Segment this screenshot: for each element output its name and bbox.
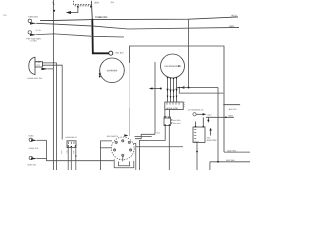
svg-text:BLK WHT: BLK WHT [173,122,181,125]
svg-text:BLK YEL: BLK YEL [229,108,238,111]
horn relay [60,136,78,170]
resistor output wire down [196,142,198,170]
alternator field wire (left, down to ignition switch) [149,62,162,134]
svg-text:BLK YEL: BLK YEL [228,149,238,152]
svg-text:BLK RED: BLK RED [173,119,181,122]
svg-text:ALT WARNING LP: ALT WARNING LP [188,109,204,112]
alternator terminal wires down to regulator [168,78,177,102]
svg-text:STARTER: STARTER [107,69,118,72]
svg-text:20A: 20A [94,1,99,4]
headlight switch wires [42,63,62,170]
accessory feed wire (right, down) [217,88,219,162]
front side marker wire [36,34,124,37]
svg-text:LIC PL: LIC PL [36,29,42,32]
starter solenoid terminal [99,70,101,77]
staircase wire into ignition switch [135,134,155,138]
headlight switch [27,40,53,80]
svg-text:BAT BLK: BAT BLK [116,52,125,55]
horn switch connector [27,156,37,166]
regulator connector [165,102,185,110]
branch wire down to alternator output [188,19,190,87]
ignition switch left feed [100,141,112,170]
alternator output wire with arrow [177,86,219,88]
svg-text:LT GRN: LT GRN [30,40,37,43]
svg-text:L BLU: L BLU [207,113,213,116]
coil primary wire (down/left) [139,126,165,171]
ignition switch bottom loop wires [114,156,134,167]
junction dot at main vertical [91,19,93,21]
svg-text:RED: RED [229,25,234,28]
svg-text:HORN RELAY: HORN RELAY [65,136,77,139]
coil secondary wire (down to distributor) [168,126,170,171]
bottom right bus wire [210,159,250,170]
main harness wire (long vertical) [53,0,55,170]
inline connector arrows (down from lamp line) [207,117,212,135]
starter [100,51,125,82]
svg-text:WHT: WHT [229,115,234,118]
fusible link feed line (long top wire) [40,17,238,21]
svg-text:WHT BLK: WHT BLK [226,159,236,162]
fuse block (dashed box, top center) [74,0,92,6]
svg-text:REGULATOR: REGULATOR [166,107,178,110]
turn signal wire (long, to right edge) [36,23,239,29]
horn button connector [28,135,39,151]
svg-text:HORN: HORN [28,135,34,138]
ignition switch [107,134,134,160]
svg-text:HEADLIGHT SW: HEADLIGHT SW [27,77,42,80]
alternator [161,54,185,78]
lamp feed wire to right [206,116,234,118]
ignition coil [164,110,181,126]
ignition resistor [193,117,217,142]
turn signal connector [28,15,38,24]
connector arrow to fuse block [66,6,92,14]
svg-text:TURN SIG: TURN SIG [28,15,38,18]
svg-text:HORN BTN: HORN BTN [29,147,39,150]
ignition switch feed wire (long, bottom) [136,146,184,148]
main feed wire (thick, fuse to starter) [92,1,109,53]
right side stub wire with label [223,104,240,106]
svg-text:HORN SW: HORN SW [27,163,36,166]
BLK YEL wire (bottom right corner of box) [224,151,250,153]
distributor branch wire [134,144,136,171]
horn wires [37,140,114,160]
engine compartment box [130,46,225,152]
svg-text:RESISTOR: RESISTOR [207,139,217,142]
svg-text:IGN SWITCH: IGN SWITCH [107,135,119,138]
alternator warning lamp [188,109,213,117]
svg-text:RED: RED [232,15,237,18]
front side marker connector [27,29,42,40]
svg-text:FUSIBLE LINK: FUSIBLE LINK [95,16,108,19]
ignition switch right stub [135,136,152,138]
alternator sense wire [179,88,223,94]
